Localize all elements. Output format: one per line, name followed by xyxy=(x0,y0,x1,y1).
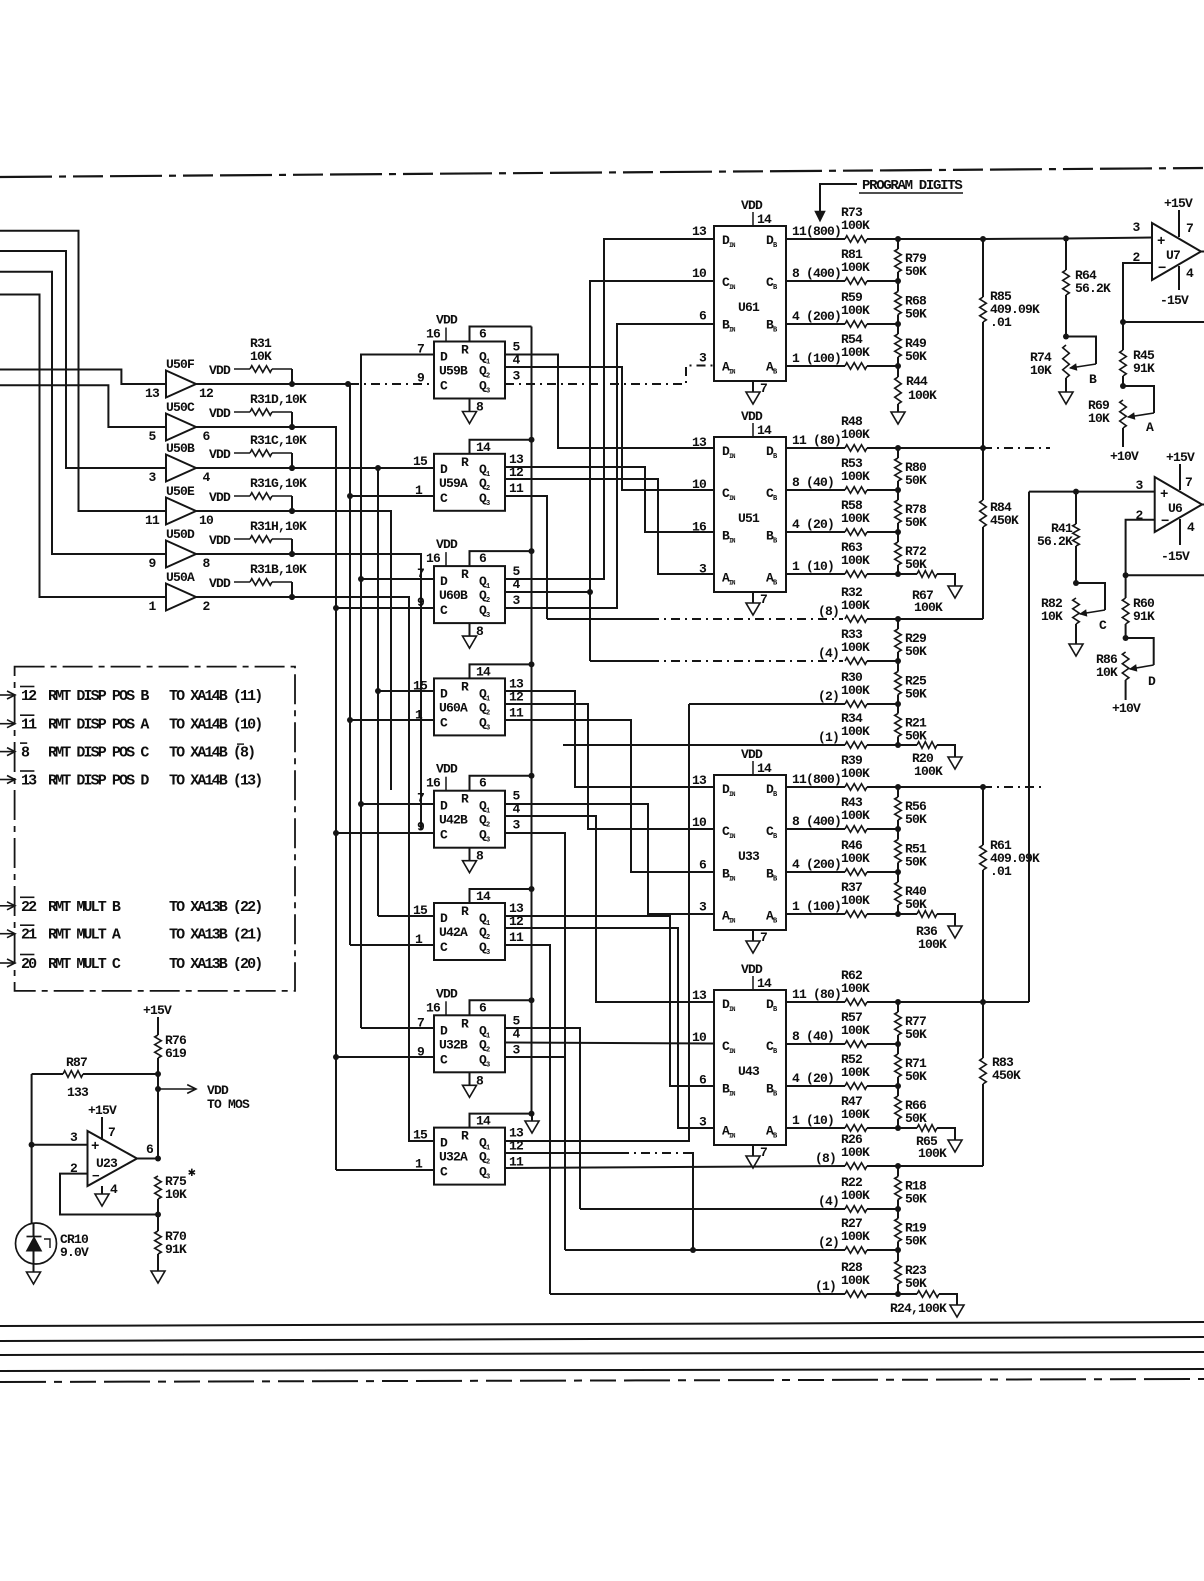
svg-text:RMT MULT C: RMT MULT C xyxy=(48,956,121,973)
svg-text:VDD: VDD xyxy=(209,490,231,505)
svg-text:100K: 100K xyxy=(914,764,943,779)
svg-text:U32B: U32B xyxy=(439,1037,468,1052)
svg-text:16: 16 xyxy=(426,1000,441,1015)
svg-text:14: 14 xyxy=(757,976,772,991)
svg-text:VDD: VDD xyxy=(741,747,763,762)
svg-text:3: 3 xyxy=(1132,220,1140,235)
svg-text:1 (10): 1 (10) xyxy=(792,559,834,574)
svg-text:RMT DISP POS A: RMT DISP POS A xyxy=(48,717,149,734)
svg-text:C: C xyxy=(440,940,448,955)
svg-text:2: 2 xyxy=(1135,508,1143,523)
svg-text:14: 14 xyxy=(476,664,491,679)
svg-text:4: 4 xyxy=(1186,266,1194,281)
svg-text:D: D xyxy=(440,911,448,926)
svg-text:4 (20): 4 (20) xyxy=(792,517,834,532)
svg-text:56.2K: 56.2K xyxy=(1037,534,1073,549)
svg-text:13: 13 xyxy=(692,988,707,1003)
svg-text:D: D xyxy=(440,799,448,814)
svg-text:50K: 50K xyxy=(905,687,927,702)
svg-text:9: 9 xyxy=(417,1044,425,1059)
svg-text:100K: 100K xyxy=(841,1023,870,1038)
svg-text:TO XA13B (20): TO XA13B (20) xyxy=(169,956,261,973)
svg-text:50K: 50K xyxy=(905,307,927,322)
svg-text:50K: 50K xyxy=(905,1111,927,1126)
svg-text:+15V: +15V xyxy=(1164,196,1193,211)
svg-text:8: 8 xyxy=(476,624,484,639)
svg-text:6: 6 xyxy=(479,1000,487,1015)
svg-text:U50C: U50C xyxy=(166,400,195,415)
svg-text:3: 3 xyxy=(512,593,520,608)
svg-text:1 (10): 1 (10) xyxy=(792,1113,834,1128)
svg-text:1: 1 xyxy=(415,932,423,947)
svg-text:VDD: VDD xyxy=(209,533,231,548)
svg-text:50K: 50K xyxy=(905,557,927,572)
svg-text:14: 14 xyxy=(757,212,772,227)
svg-text:15: 15 xyxy=(413,1128,428,1143)
svg-text:10: 10 xyxy=(199,513,214,528)
svg-text:6: 6 xyxy=(699,1073,707,1088)
svg-text:+10V: +10V xyxy=(1112,701,1141,716)
svg-text:8 (40): 8 (40) xyxy=(792,1029,834,1044)
svg-text:R: R xyxy=(461,1129,469,1144)
svg-text:100K: 100K xyxy=(841,981,870,996)
svg-text:VDD: VDD xyxy=(209,576,231,591)
svg-text:−: − xyxy=(1158,261,1166,277)
svg-text:7: 7 xyxy=(417,791,424,806)
svg-text:10K: 10K xyxy=(165,1187,187,1202)
svg-text:TO XA13B (22): TO XA13B (22) xyxy=(169,899,261,916)
svg-text:100K: 100K xyxy=(841,553,870,568)
svg-text:B: B xyxy=(1089,372,1097,387)
svg-text:4 (20): 4 (20) xyxy=(792,1071,834,1086)
svg-text:U50D: U50D xyxy=(166,527,195,542)
svg-text:50K: 50K xyxy=(905,897,927,912)
svg-text:+: + xyxy=(1160,487,1168,503)
svg-text:RMT DISP POS D: RMT DISP POS D xyxy=(48,773,149,790)
svg-text:R: R xyxy=(461,679,469,694)
svg-text:100K: 100K xyxy=(841,766,870,781)
svg-text:50K: 50K xyxy=(905,1069,927,1084)
svg-text:10: 10 xyxy=(692,477,707,492)
svg-text:6: 6 xyxy=(479,327,487,342)
svg-text:U42B: U42B xyxy=(439,813,468,828)
svg-text:-15V: -15V xyxy=(1160,293,1189,308)
svg-text:+15V: +15V xyxy=(88,1103,117,1118)
svg-text:8: 8 xyxy=(476,400,484,415)
svg-text:100K: 100K xyxy=(908,388,937,403)
svg-text:91K: 91K xyxy=(1133,361,1155,376)
svg-text:9: 9 xyxy=(417,595,425,610)
svg-text:8 (400): 8 (400) xyxy=(792,814,841,829)
svg-text:4 (200): 4 (200) xyxy=(792,857,841,872)
svg-text:12: 12 xyxy=(21,688,37,705)
svg-text:50K: 50K xyxy=(905,855,927,870)
svg-text:100K: 100K xyxy=(841,218,870,233)
svg-text:10K: 10K xyxy=(250,349,272,364)
svg-text:U59B: U59B xyxy=(439,364,468,379)
svg-text:16: 16 xyxy=(426,327,441,342)
svg-text:(1): (1) xyxy=(815,1279,836,1294)
svg-text:7: 7 xyxy=(760,592,767,607)
svg-text:11 (80): 11 (80) xyxy=(792,433,841,448)
svg-text:100K: 100K xyxy=(914,600,943,615)
svg-text:50K: 50K xyxy=(905,644,927,659)
svg-text:1: 1 xyxy=(415,707,423,722)
svg-text:R31G,10K: R31G,10K xyxy=(250,476,307,491)
svg-text:C: C xyxy=(440,603,448,618)
svg-text:10: 10 xyxy=(692,815,707,830)
svg-text:4 (200): 4 (200) xyxy=(792,309,841,324)
svg-text:5: 5 xyxy=(148,429,156,444)
svg-text:U23: U23 xyxy=(96,1156,118,1171)
svg-text:15: 15 xyxy=(413,454,428,469)
svg-text:✱: ✱ xyxy=(188,1165,196,1180)
svg-text:16: 16 xyxy=(692,520,707,535)
svg-text:R24,100K: R24,100K xyxy=(890,1301,947,1316)
svg-text:9: 9 xyxy=(417,820,425,835)
svg-text:VDD: VDD xyxy=(207,1083,229,1098)
svg-text:7: 7 xyxy=(760,381,767,396)
svg-text:3: 3 xyxy=(699,351,707,366)
svg-text:U42A: U42A xyxy=(439,925,468,940)
svg-text:(8): (8) xyxy=(818,604,839,619)
svg-text:(1): (1) xyxy=(818,730,839,745)
svg-text:100K: 100K xyxy=(841,724,870,739)
svg-text:10: 10 xyxy=(692,266,707,281)
svg-text:3: 3 xyxy=(512,818,520,833)
svg-text:10: 10 xyxy=(692,1030,707,1045)
svg-text:50K: 50K xyxy=(905,812,927,827)
svg-text:D: D xyxy=(440,574,448,589)
svg-text:10K: 10K xyxy=(1088,411,1110,426)
svg-text:R44: R44 xyxy=(906,374,928,389)
svg-text:50K: 50K xyxy=(905,1276,927,1291)
svg-text:100K: 100K xyxy=(841,427,870,442)
svg-text:R: R xyxy=(461,343,469,358)
svg-text:U50A: U50A xyxy=(166,570,195,585)
svg-text:7: 7 xyxy=(760,930,767,945)
svg-text:100K: 100K xyxy=(841,893,870,908)
svg-text:14: 14 xyxy=(476,1114,491,1129)
svg-text:R: R xyxy=(461,567,469,582)
svg-text:2: 2 xyxy=(202,599,210,614)
svg-text:50K: 50K xyxy=(905,264,927,279)
svg-text:4: 4 xyxy=(110,1182,118,1197)
svg-text:100K: 100K xyxy=(841,469,870,484)
svg-text:U43: U43 xyxy=(738,1064,760,1079)
svg-text:8 (40): 8 (40) xyxy=(792,475,834,490)
svg-text:50K: 50K xyxy=(905,473,927,488)
svg-text:13: 13 xyxy=(21,773,37,790)
svg-text:50K: 50K xyxy=(905,349,927,364)
svg-text:A: A xyxy=(1146,420,1154,435)
svg-text:50K: 50K xyxy=(905,1192,927,1207)
svg-text:11: 11 xyxy=(21,717,37,734)
svg-text:VDD: VDD xyxy=(741,962,763,977)
svg-text:C: C xyxy=(440,1165,448,1180)
svg-text:7: 7 xyxy=(760,1145,767,1160)
svg-text:16: 16 xyxy=(426,551,441,566)
svg-text:U51: U51 xyxy=(738,511,760,526)
svg-text:8: 8 xyxy=(202,556,210,571)
svg-text:11: 11 xyxy=(509,705,524,720)
svg-text:6: 6 xyxy=(202,429,210,444)
svg-text:100K: 100K xyxy=(841,1188,870,1203)
svg-text:13: 13 xyxy=(692,435,707,450)
svg-text:100K: 100K xyxy=(841,683,870,698)
svg-text:133: 133 xyxy=(67,1085,89,1100)
svg-text:1: 1 xyxy=(415,1157,423,1172)
svg-text:11: 11 xyxy=(145,513,160,528)
svg-text:15: 15 xyxy=(413,678,428,693)
svg-text:6: 6 xyxy=(699,858,707,873)
svg-text:11: 11 xyxy=(509,481,524,496)
svg-text:(4): (4) xyxy=(818,1194,839,1209)
svg-text:12: 12 xyxy=(199,386,214,401)
svg-text:C: C xyxy=(440,491,448,506)
svg-text:VDD: VDD xyxy=(209,363,231,378)
svg-text:3: 3 xyxy=(512,369,520,384)
svg-text:R31B,10K: R31B,10K xyxy=(250,562,307,577)
svg-text:6: 6 xyxy=(479,776,487,791)
svg-text:TO MOS: TO MOS xyxy=(207,1097,250,1112)
svg-text:8 (400): 8 (400) xyxy=(792,266,841,281)
svg-text:U32A: U32A xyxy=(439,1150,468,1165)
svg-text:R: R xyxy=(461,904,469,919)
svg-text:C: C xyxy=(440,715,448,730)
svg-text:1: 1 xyxy=(415,483,423,498)
svg-text:C: C xyxy=(1099,618,1107,633)
svg-text:7: 7 xyxy=(417,1015,424,1030)
svg-text:U59A: U59A xyxy=(439,476,468,491)
svg-text:R31C,10K: R31C,10K xyxy=(250,433,307,448)
svg-text:RMT DISP POS C: RMT DISP POS C xyxy=(48,745,149,762)
svg-text:+15V: +15V xyxy=(143,1003,172,1018)
svg-text:10K: 10K xyxy=(1030,363,1052,378)
svg-text:RMT MULT A: RMT MULT A xyxy=(48,927,121,944)
svg-text:D: D xyxy=(440,686,448,701)
svg-text:100K: 100K xyxy=(841,260,870,275)
svg-text:+: + xyxy=(91,1139,99,1155)
svg-text:10K: 10K xyxy=(1096,665,1118,680)
svg-text:3: 3 xyxy=(699,1115,707,1130)
svg-text:50K: 50K xyxy=(905,515,927,530)
svg-text:(2): (2) xyxy=(818,689,839,704)
svg-text:R31H,10K: R31H,10K xyxy=(250,519,307,534)
svg-text:U50B: U50B xyxy=(166,441,195,456)
svg-text:U33: U33 xyxy=(738,849,760,864)
svg-text:13: 13 xyxy=(692,773,707,788)
svg-text:+10V: +10V xyxy=(1110,449,1139,464)
svg-text:1 (100): 1 (100) xyxy=(792,351,841,366)
svg-text:VDD: VDD xyxy=(436,537,458,552)
svg-text:100K: 100K xyxy=(841,1065,870,1080)
svg-text:22: 22 xyxy=(21,899,37,916)
svg-text:U7: U7 xyxy=(1166,248,1180,263)
svg-text:4: 4 xyxy=(202,470,210,485)
svg-text:100K: 100K xyxy=(841,1107,870,1122)
svg-text:R: R xyxy=(461,455,469,470)
svg-text:RMT DISP POS B: RMT DISP POS B xyxy=(48,688,149,705)
svg-text:450K: 450K xyxy=(992,1068,1021,1083)
svg-text:3: 3 xyxy=(512,1042,520,1057)
svg-text:7: 7 xyxy=(1186,221,1193,236)
svg-text:100K: 100K xyxy=(841,598,870,613)
svg-text:VDD: VDD xyxy=(209,406,231,421)
svg-text:50K: 50K xyxy=(905,1027,927,1042)
svg-text:11(800): 11(800) xyxy=(792,772,841,787)
svg-text:100K: 100K xyxy=(841,511,870,526)
svg-text:D: D xyxy=(440,462,448,477)
svg-text:15: 15 xyxy=(413,903,428,918)
svg-text:9.0V: 9.0V xyxy=(60,1245,89,1260)
svg-text:100K: 100K xyxy=(841,1273,870,1288)
svg-text:U6: U6 xyxy=(1168,501,1183,516)
svg-text:R31D,10K: R31D,10K xyxy=(250,392,307,407)
svg-text:TO XA14B (10): TO XA14B (10) xyxy=(169,717,261,734)
svg-text:VDD: VDD xyxy=(209,447,231,462)
svg-text:100K: 100K xyxy=(841,1229,870,1244)
svg-text:(4): (4) xyxy=(818,646,839,661)
svg-text:13: 13 xyxy=(145,386,160,401)
svg-text:450K: 450K xyxy=(990,513,1019,528)
svg-text:3: 3 xyxy=(699,900,707,915)
svg-text:100K: 100K xyxy=(841,640,870,655)
svg-text:14: 14 xyxy=(476,889,491,904)
svg-text:6: 6 xyxy=(699,309,707,324)
svg-text:R: R xyxy=(461,1016,469,1031)
svg-text:91K: 91K xyxy=(165,1242,187,1257)
svg-text:9: 9 xyxy=(417,371,425,386)
svg-text:C: C xyxy=(440,379,448,394)
svg-text:RMT MULT B: RMT MULT B xyxy=(48,899,121,916)
svg-text:−: − xyxy=(1161,514,1169,530)
svg-text:1: 1 xyxy=(148,599,156,614)
svg-text:11(800): 11(800) xyxy=(792,224,841,239)
svg-text:14: 14 xyxy=(476,440,491,455)
svg-text:7: 7 xyxy=(417,566,424,581)
svg-text:(2): (2) xyxy=(818,1235,839,1250)
svg-text:3: 3 xyxy=(70,1130,78,1145)
svg-text:VDD: VDD xyxy=(741,409,763,424)
svg-text:100K: 100K xyxy=(918,937,947,952)
svg-text:100K: 100K xyxy=(918,1146,947,1161)
svg-text:VDD: VDD xyxy=(436,986,458,1001)
svg-text:VDD: VDD xyxy=(741,198,763,213)
svg-text:16: 16 xyxy=(426,776,441,791)
svg-text:100K: 100K xyxy=(841,303,870,318)
svg-text:3: 3 xyxy=(699,562,707,577)
svg-text:20: 20 xyxy=(21,956,37,973)
svg-text:3: 3 xyxy=(148,470,156,485)
svg-text:D: D xyxy=(440,1136,448,1151)
svg-text:619: 619 xyxy=(165,1046,187,1061)
svg-text:D: D xyxy=(440,350,448,365)
svg-text:R87: R87 xyxy=(66,1055,87,1070)
svg-text:.01: .01 xyxy=(990,864,1012,879)
svg-text:7: 7 xyxy=(1185,475,1192,490)
svg-text:−: − xyxy=(92,1169,100,1184)
svg-text:21: 21 xyxy=(21,927,37,944)
svg-text:TO XA14B (13): TO XA14B (13) xyxy=(169,773,261,790)
svg-text:50K: 50K xyxy=(905,1234,927,1249)
svg-text:TO XA13B (21): TO XA13B (21) xyxy=(169,927,261,944)
svg-text:100K: 100K xyxy=(841,808,870,823)
svg-text:+: + xyxy=(1157,234,1165,250)
svg-text:-15V: -15V xyxy=(1161,549,1190,564)
svg-text:PROGRAM DIGITS: PROGRAM DIGITS xyxy=(862,178,962,194)
svg-text:11 (80): 11 (80) xyxy=(792,987,841,1002)
svg-text:1 (100): 1 (100) xyxy=(792,899,841,914)
svg-text:VDD: VDD xyxy=(436,762,458,777)
svg-text:U50E: U50E xyxy=(166,484,195,499)
svg-text:(8): (8) xyxy=(815,1151,836,1166)
svg-text:9: 9 xyxy=(148,556,156,571)
svg-text:50K: 50K xyxy=(905,729,927,744)
svg-text:C: C xyxy=(440,1052,448,1067)
svg-text:C: C xyxy=(440,828,448,843)
svg-text:6: 6 xyxy=(479,551,487,566)
svg-text:91K: 91K xyxy=(1133,609,1155,624)
svg-text:.01: .01 xyxy=(990,315,1012,330)
svg-text:D: D xyxy=(1148,674,1156,689)
svg-text:TO XA14B (8): TO XA14B (8) xyxy=(169,745,254,762)
svg-text:6: 6 xyxy=(146,1142,154,1157)
svg-text:100K: 100K xyxy=(841,1145,870,1160)
svg-text:100K: 100K xyxy=(841,345,870,360)
svg-text:8: 8 xyxy=(476,849,484,864)
svg-text:U60B: U60B xyxy=(439,588,468,603)
svg-text:10K: 10K xyxy=(1041,609,1063,624)
svg-text:8: 8 xyxy=(476,1073,484,1088)
svg-text:14: 14 xyxy=(757,423,772,438)
svg-text:7: 7 xyxy=(108,1125,115,1140)
svg-text:7: 7 xyxy=(417,342,424,357)
svg-text:VDD: VDD xyxy=(436,313,458,328)
svg-text:13: 13 xyxy=(692,224,707,239)
svg-text:U61: U61 xyxy=(738,300,760,315)
svg-text:11: 11 xyxy=(509,930,524,945)
svg-text:R: R xyxy=(461,792,469,807)
svg-text:56.2K: 56.2K xyxy=(1075,281,1111,296)
svg-text:4: 4 xyxy=(1187,520,1195,535)
svg-text:D: D xyxy=(440,1023,448,1038)
svg-text:U50F: U50F xyxy=(166,357,195,372)
svg-text:+15V: +15V xyxy=(1166,450,1195,465)
svg-text:100K: 100K xyxy=(841,851,870,866)
svg-text:TO XA14B (11): TO XA14B (11) xyxy=(169,688,261,705)
svg-text:14: 14 xyxy=(757,761,772,776)
svg-text:U60A: U60A xyxy=(439,700,468,715)
